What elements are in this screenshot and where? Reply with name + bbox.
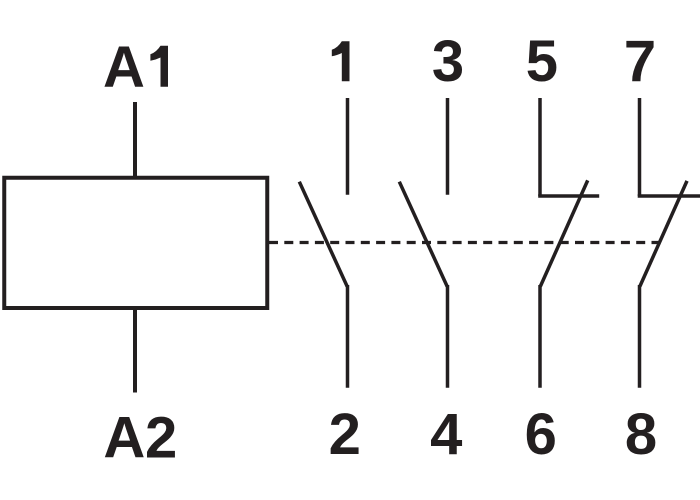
svg-text:4: 4	[430, 402, 462, 467]
svg-text:6: 6	[525, 402, 557, 467]
svg-text:7: 7	[624, 29, 656, 94]
svg-text:8: 8	[625, 402, 657, 467]
svg-text:2: 2	[145, 405, 177, 470]
svg-text:A: A	[103, 405, 145, 470]
svg-text:5: 5	[526, 29, 558, 94]
svg-text:A: A	[103, 35, 145, 100]
svg-text:3: 3	[432, 29, 464, 94]
svg-text:2: 2	[329, 402, 361, 467]
